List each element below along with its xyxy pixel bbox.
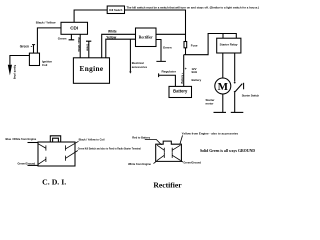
svg-text:Spark plug: Spark plug	[13, 65, 17, 80]
svg-text:Rectifier: Rectifier	[153, 183, 181, 190]
leader green/ground	[180, 161, 183, 162]
svg-text:Battery: Battery	[192, 78, 202, 82]
wire fuse to power junction	[185, 48, 187, 55]
svg-text:Starter Relay: Starter Relay	[220, 43, 238, 47]
svg-text:Kill Switch: Kill Switch	[109, 8, 123, 12]
starter motor M1	[215, 78, 231, 94]
starter relay K1	[217, 38, 241, 53]
starter switch S1	[234, 82, 244, 93]
leader white from engine	[154, 161, 158, 164]
CDI unit U1	[61, 22, 88, 34]
kill switch SW1	[107, 6, 124, 14]
svg-text:Blue / White: Blue / White	[77, 38, 80, 53]
wire black/yellow CDI to ignition coil	[37, 28, 61, 53]
wire starter switch to ground	[234, 93, 236, 113]
fuse F1	[184, 42, 187, 48]
svg-text:Black / Yellow: Black / Yellow	[36, 21, 56, 25]
leader red to battery	[145, 140, 162, 145]
wire regulator tap with terminal bar	[159, 73, 176, 86]
wire spark plug lead	[10, 56, 30, 65]
wire yellow engine to rectifier	[106, 39, 136, 58]
wire blue/white CDI to engine	[79, 34, 81, 58]
CDI connector handle	[50, 136, 60, 142]
svg-text:Fuse: Fuse	[191, 44, 198, 48]
rectifier pin 1 top-left	[157, 145, 164, 153]
wire rectifier red output to fuse junction	[156, 33, 186, 35]
engine E1	[73, 58, 109, 84]
svg-text:Red to Battery: Red to Battery	[132, 136, 150, 140]
rectifier pin 4 bottom-right	[172, 153, 180, 161]
wire green/ground lead into CDI connector	[28, 164, 39, 166]
wire relay to starter motor	[222, 53, 224, 78]
ground bar under starter motor	[214, 111, 227, 113]
wire rectifier green ground with bar terminal	[156, 40, 166, 62]
svg-text:Starter Switch: Starter Switch	[242, 93, 260, 97]
wire relay to starter switch	[234, 53, 236, 82]
rectifier pin 2 top-right	[172, 145, 180, 153]
ignition coil T1	[29, 53, 39, 65]
wire CDI top to kill switch	[74, 10, 107, 22]
svg-text:White: White	[108, 29, 117, 33]
svg-text:Solid Green is all ways GROUND: Solid Green is all ways GROUND	[200, 148, 255, 153]
CDI pin 4 bottom-right with leader to green kill label	[66, 151, 78, 161]
rectifier pin 3 bottom-left	[157, 153, 164, 161]
svg-text:Green: Green	[20, 44, 29, 48]
svg-text:Green: Green	[163, 45, 172, 49]
wire relay top tap	[222, 34, 224, 39]
svg-text:CDI: CDI	[70, 26, 78, 31]
svg-text:Engine: Engine	[80, 65, 104, 73]
battery B1	[169, 86, 192, 97]
svg-text:Regulator: Regulator	[162, 70, 177, 74]
svg-text:Green: Green	[58, 37, 67, 41]
svg-text:Green: Green	[86, 44, 89, 52]
svg-text:Green Kill Switch and also to: Green Kill Switch and also to Feed to Ra…	[78, 148, 141, 151]
accessories arrowhead	[129, 72, 131, 74]
green stub terminal at ignition coil	[32, 45, 35, 54]
wire battery positive	[183, 55, 185, 87]
wire starter motor to ground	[222, 94, 224, 112]
svg-text:Green/Ground: Green/Ground	[18, 161, 36, 165]
svg-text:Black / Yellow to Coil: Black / Yellow to Coil	[79, 138, 105, 142]
CDI connector detail box	[38, 142, 75, 166]
wire kill switch to fuse (top run)	[125, 10, 186, 42]
green arrow pointing to coil stub	[31, 45, 32, 47]
CDI pin 3 top-right with leader to black/yellow label	[66, 141, 79, 150]
svg-text:Rectifier: Rectifier	[139, 35, 153, 39]
ground bar under starter switch	[231, 111, 244, 113]
wire blue/white lead into CDI connector	[28, 142, 39, 144]
CDI pin 2 bottom-left	[38, 157, 46, 165]
spark plug arrow	[8, 65, 12, 76]
wire white engine to rectifier	[102, 34, 136, 58]
svg-text:9AH: 9AH	[192, 70, 198, 74]
svg-text:motor: motor	[206, 101, 215, 105]
CDI pin 1 top-left	[38, 144, 46, 151]
svg-text:Battery: Battery	[173, 89, 188, 94]
svg-text:+: +	[185, 67, 187, 71]
svg-text:C. D. I.: C. D. I.	[42, 179, 66, 186]
wire yellow branch to electrical accessories	[129, 39, 131, 71]
svg-text:White from Engine: White from Engine	[128, 162, 151, 166]
svg-text:The kill switch must be a swit: The kill switch must be a switch that wi…	[127, 5, 260, 9]
svg-text:accessories: accessories	[132, 65, 148, 69]
leader yellow from engine	[180, 135, 183, 144]
green ground wire from engine with bar terminal	[86, 41, 91, 58]
svg-text:Coil: Coil	[42, 63, 48, 67]
rectifier U2	[136, 28, 157, 47]
svg-text:Green/Ground: Green/Ground	[183, 161, 201, 165]
rectifier connector detail box with key tab	[156, 141, 182, 161]
CDI green pigtail with bar terminal	[69, 34, 75, 40]
svg-text:Yellow: Yellow	[106, 36, 116, 40]
wire power junction run to starter relay	[184, 34, 237, 55]
svg-text:Electrical: Electrical	[132, 61, 144, 65]
svg-text:Battery +: Battery +	[181, 72, 184, 83]
svg-text:Yellow from Engine - also to a: Yellow from Engine - also to accessories	[182, 131, 239, 135]
svg-text:M: M	[218, 81, 229, 93]
svg-text:Blue / White from Engine: Blue / White from Engine	[6, 137, 37, 141]
